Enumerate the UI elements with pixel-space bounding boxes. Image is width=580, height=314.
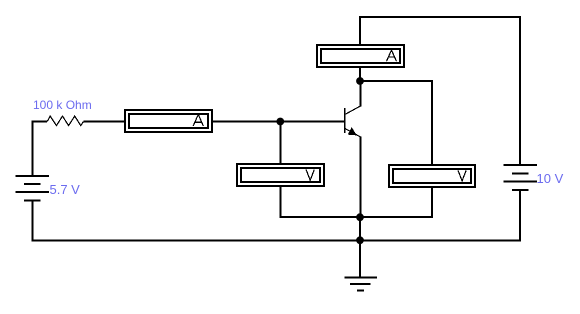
node C junction dot: [356, 77, 364, 85]
voltmeter U3: [236, 163, 325, 187]
ground: [344, 277, 377, 290]
wire node B to voltmeter U3 top: [279, 122, 281, 165]
wire bottom rail: [31, 239, 521, 241]
wire node C to voltmeter U4 top: [360, 81, 432, 165]
ammeter U1: [124, 109, 213, 133]
ammeter U1 letter A: [193, 114, 203, 126]
voltmeter U4: [388, 164, 476, 188]
wire emitter node to ground node: [359, 217, 361, 240]
wire battery V2 negative to bottom rail: [519, 190, 521, 242]
battery V2: [504, 165, 538, 190]
wire transistor Q1 emitter to emitter node: [359, 137, 361, 218]
resistor R1: [47, 116, 83, 126]
ammeter U2 letter A: [387, 50, 397, 61]
wire battery V1 positive to resistor R1: [32, 122, 47, 177]
battery V1: [16, 176, 50, 200]
wire emitter rail: [279, 216, 433, 218]
wire node C to transistor Q1 collector: [359, 81, 361, 106]
wire voltmeter U4 bottom to emitter rail: [431, 187, 433, 219]
ammeter U2: [316, 44, 405, 68]
wire ammeter U2 bottom to node C: [359, 68, 361, 82]
svg-text:100 k Ohm: 100 k Ohm: [33, 98, 92, 112]
voltmeter U3 letter V: [306, 170, 314, 181]
node B junction dot: [276, 118, 284, 126]
wire ammeter U1 to transistor Q1 base: [212, 121, 345, 123]
svg-text:10 V: 10 V: [537, 171, 564, 186]
voltmeter U4 letter V: [458, 170, 466, 180]
node E junction dot: [356, 213, 364, 221]
wire top rail: [360, 17, 520, 166]
wire resistor R1 to ammeter U1: [83, 121, 125, 123]
wire voltmeter U3 bottom to emitter rail: [279, 187, 281, 219]
wire battery V1 negative to bottom rail: [31, 200, 33, 241]
svg-text:5.7 V: 5.7 V: [50, 182, 81, 197]
node G junction dot: [356, 236, 364, 244]
transistor Q1: [345, 106, 361, 137]
wire ground stem: [359, 240, 361, 277]
